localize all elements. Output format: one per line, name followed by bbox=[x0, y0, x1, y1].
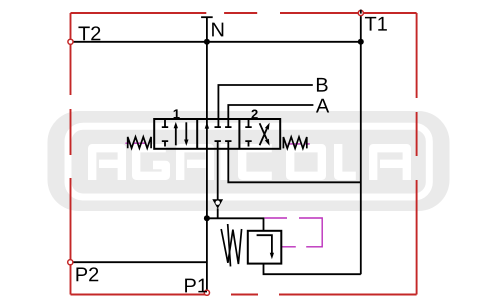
label B bbox=[317, 78, 328, 92]
wire port B bbox=[218, 85, 312, 127]
port labels bbox=[76, 17, 386, 293]
right return spring bbox=[283, 137, 306, 148]
wire N vertical supply bbox=[206, 17, 208, 218]
wire valve to check valve bbox=[217, 141, 219, 200]
position 0: blocked bottom bar 1 bbox=[215, 140, 221, 142]
directional valve V1 bbox=[128, 109, 307, 148]
relief valve body square bbox=[248, 231, 281, 264]
relief valve flow path bbox=[257, 235, 272, 253]
border top bbox=[71, 12, 417, 14]
label P2 bbox=[76, 268, 87, 282]
position 1: up arrow bbox=[175, 127, 177, 146]
valve body box bbox=[154, 119, 280, 149]
position 0 (center): through-flow arrow on N line bbox=[205, 122, 209, 128]
letter A1 bbox=[92, 148, 122, 180]
wire P1 vertical bbox=[206, 218, 208, 292]
wire valve return to tank bbox=[228, 141, 360, 182]
wire T1 return vertical bbox=[360, 13, 362, 274]
watermark inner white frame ring bbox=[68, 126, 429, 197]
position 2: blocked port top bbox=[245, 120, 251, 127]
check valve CV1 bbox=[212, 199, 223, 208]
relief valve pilot loop bbox=[265, 218, 323, 247]
check valve ball bbox=[216, 201, 220, 205]
relief valve adjustment arrow bbox=[228, 224, 231, 266]
label N bbox=[212, 23, 223, 37]
letter R bbox=[180, 148, 210, 180]
junction node at T1 header bbox=[358, 39, 364, 45]
letter I bbox=[220, 144, 228, 180]
wire port A bbox=[228, 105, 313, 127]
wire check valve to junction bbox=[217, 208, 219, 218]
letter C bbox=[242, 148, 272, 176]
letter L bbox=[338, 144, 356, 176]
relief valve adjustable spring bbox=[221, 229, 241, 264]
check valve seat triangle bbox=[212, 199, 223, 208]
border bottom bbox=[71, 294, 417, 296]
port N plug cap bbox=[201, 16, 213, 18]
watermark gray band bbox=[48, 111, 450, 211]
position 0: blocked B port bar bbox=[215, 126, 221, 128]
pilot line through right spring bbox=[288, 143, 310, 145]
border left bbox=[70, 13, 72, 295]
magenta pilot lines bbox=[125, 143, 322, 247]
port circle T1 bbox=[358, 10, 363, 15]
watermark AGRICOLA logo bbox=[48, 111, 450, 211]
position 0: blocked bottom bar 2 bbox=[225, 140, 231, 142]
position 1: blocked port top bbox=[162, 120, 168, 127]
valve section divider 1 bbox=[196, 119, 198, 149]
label T2 bbox=[78, 27, 89, 41]
port circle T2 bbox=[68, 39, 73, 44]
position 0: blocked A port bar bbox=[225, 126, 231, 128]
valve position label 2 bbox=[251, 110, 257, 119]
red dashed enclosure border (valve body envelope) bbox=[71, 13, 417, 295]
wire relief outlet to tank bbox=[264, 264, 361, 274]
letter A2 bbox=[373, 148, 407, 180]
position 2: crossed arrow 2 bbox=[260, 123, 267, 139]
watermark letters bbox=[92, 144, 407, 180]
wire P2 horizontal bbox=[71, 261, 207, 263]
label A bbox=[316, 99, 329, 113]
port circle P1 bbox=[204, 290, 209, 295]
relief valve RV1 bbox=[221, 224, 281, 266]
position 1: blocked port bottom bbox=[162, 141, 168, 146]
left return spring bbox=[128, 137, 151, 148]
position 1: down arrow bbox=[185, 122, 187, 140]
label T1 bbox=[365, 17, 376, 31]
letter G bbox=[136, 148, 166, 176]
border right bbox=[416, 13, 418, 295]
junction node at N header bbox=[204, 39, 210, 45]
junction node P/relief bbox=[204, 215, 210, 221]
wire T2 to T1 header bbox=[71, 41, 361, 43]
wire stub through T1 circle bbox=[360, 10, 362, 14]
pilot line through left spring bbox=[125, 142, 146, 144]
label P1 bbox=[185, 279, 196, 293]
position 2: crossed arrow 1 bbox=[260, 129, 267, 145]
wire junction to relief inlet bbox=[207, 218, 264, 231]
position 2: blocked port bottom bbox=[245, 141, 251, 146]
black hydraulic circuit bbox=[71, 13, 361, 293]
valve section divider 2 bbox=[238, 119, 240, 149]
port circle P2 bbox=[68, 260, 73, 265]
valve position label 1 bbox=[174, 109, 180, 118]
letter O bbox=[290, 148, 322, 176]
